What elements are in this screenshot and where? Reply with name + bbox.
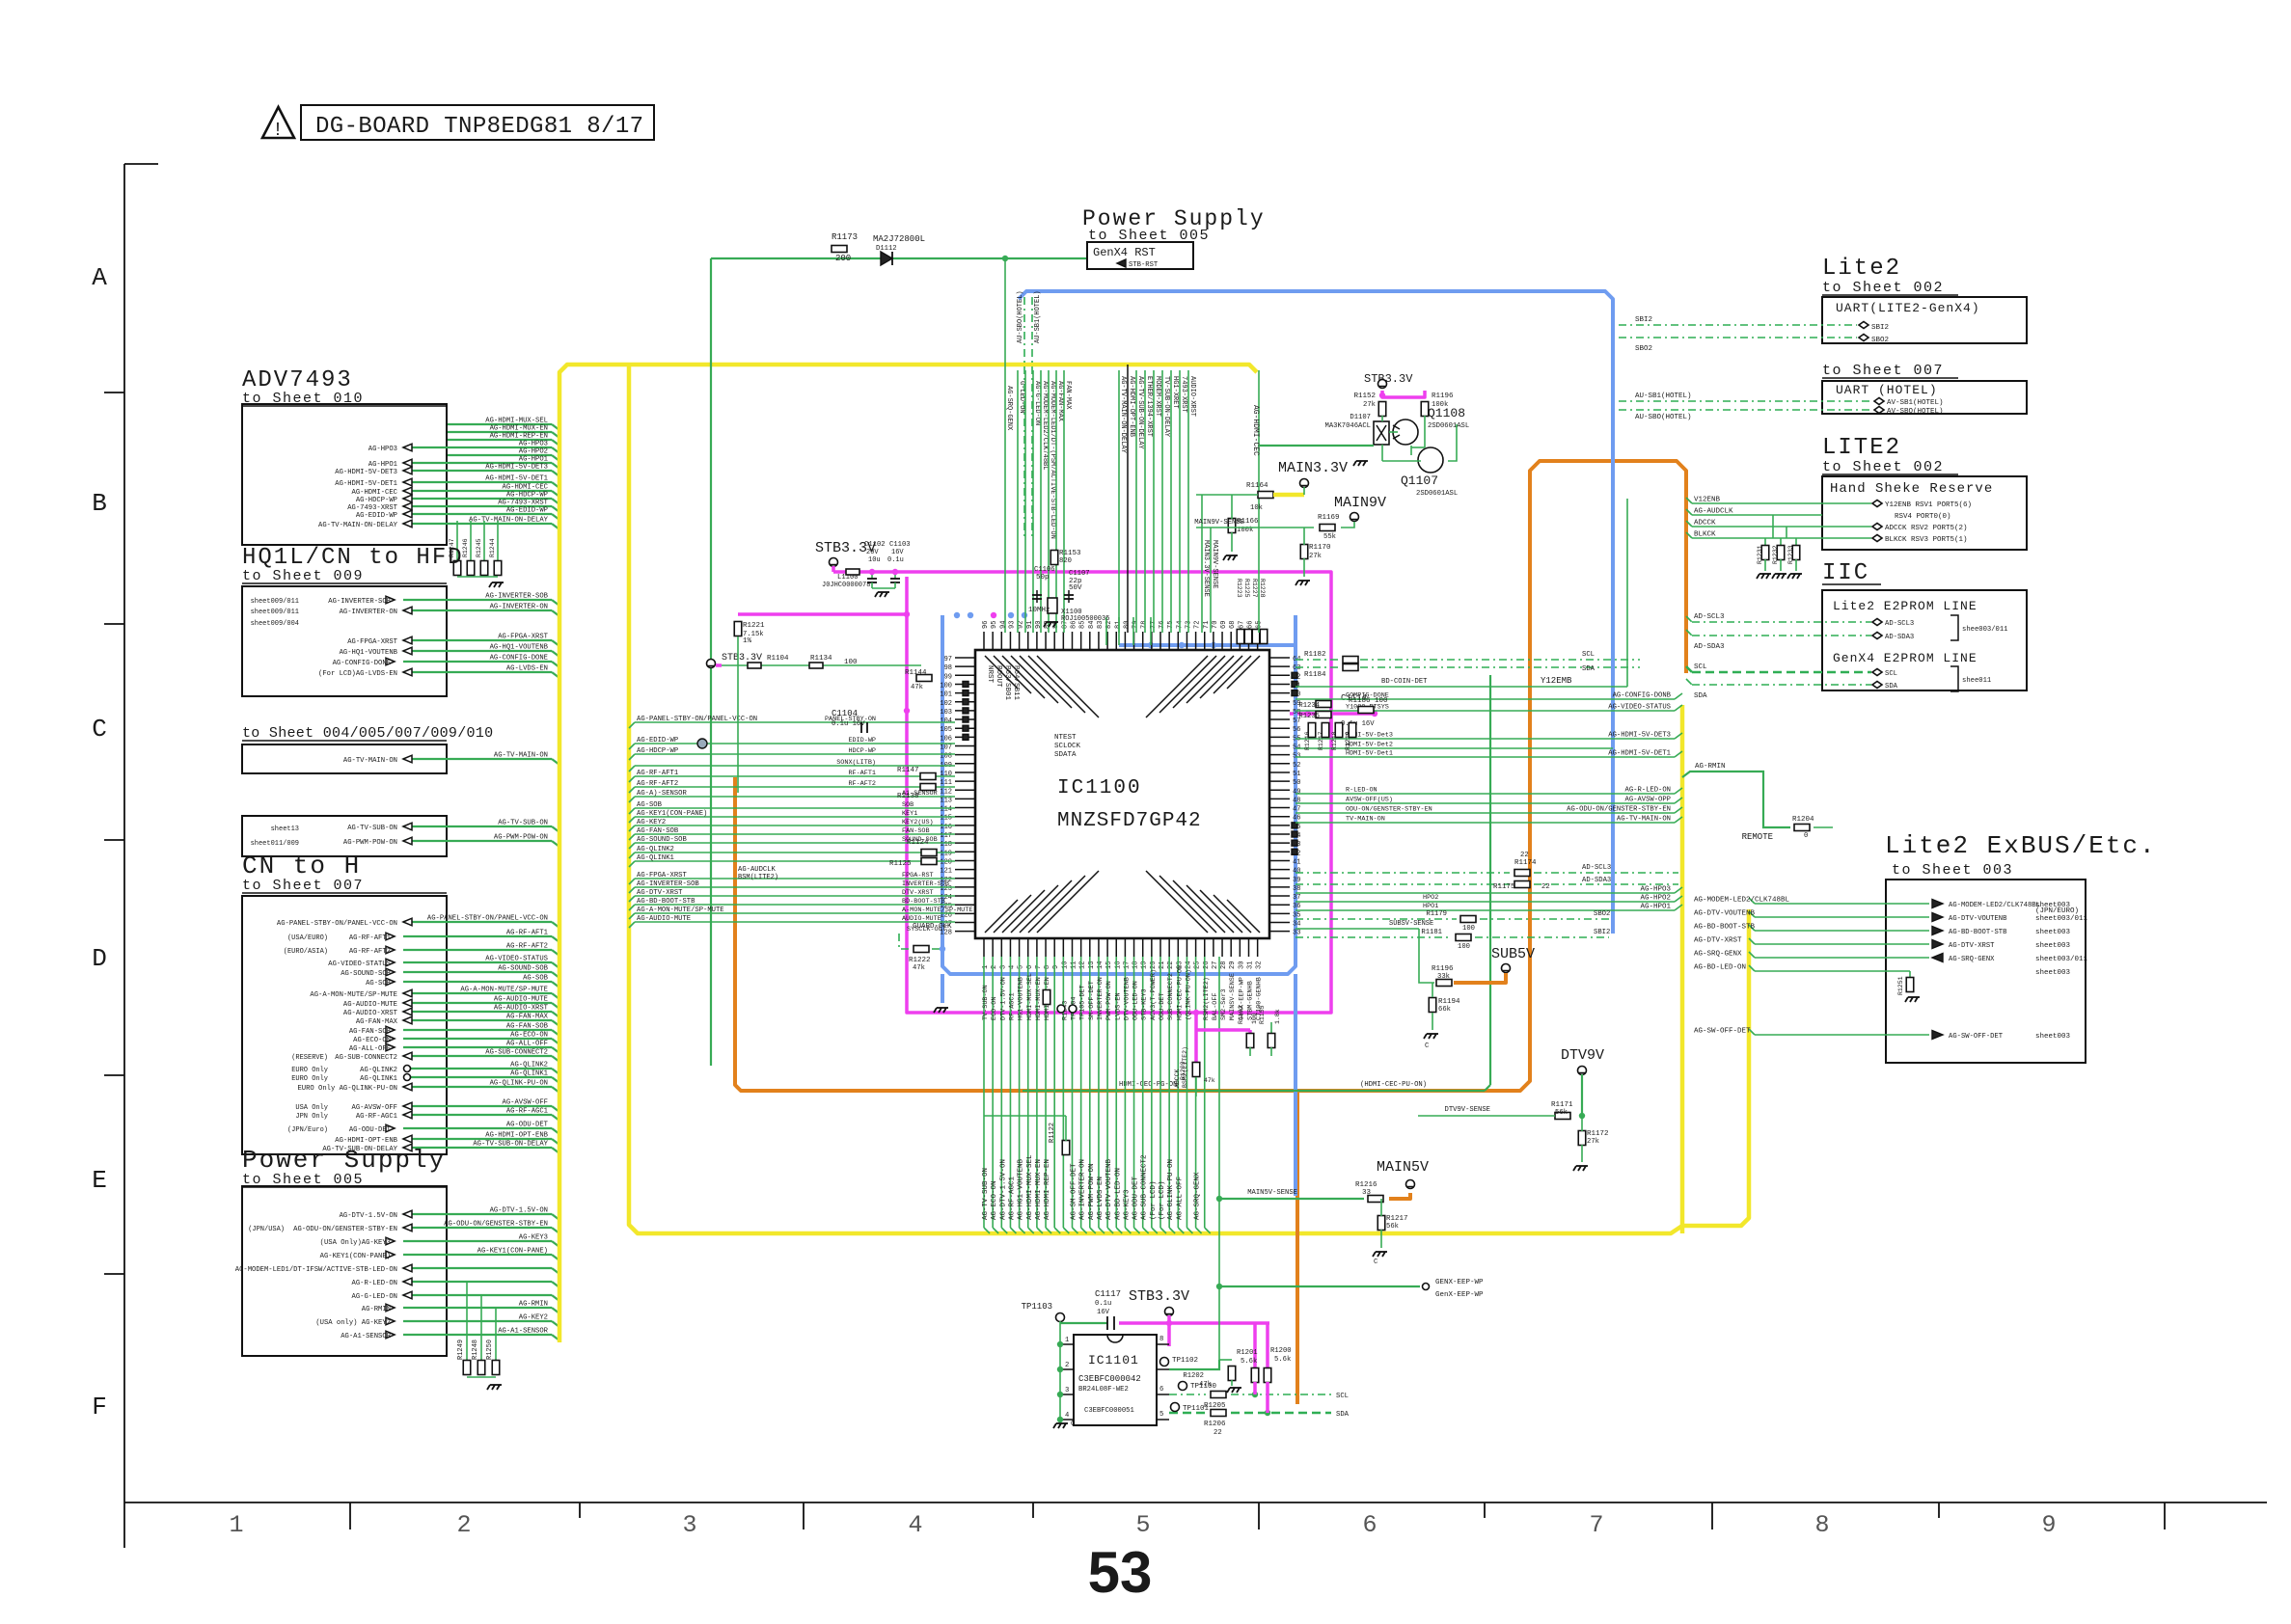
svg-text:TP105-DET: TP105-DET: [1079, 985, 1087, 1020]
svg-text:33k: 33k: [1437, 973, 1450, 981]
svg-text:AG-SUB-CONNECT2: AG-SUB-CONNECT2: [1141, 1154, 1149, 1220]
wire AG-SUB-CONNECT2: [403, 1055, 552, 1057]
svg-text:R1182: R1182: [1304, 651, 1326, 659]
svg-text:Q1107: Q1107: [1401, 474, 1438, 488]
wire AG-DTV-XRST: [1755, 943, 1929, 945]
svg-text:AG-BD-BOOT-STB: AG-BD-BOOT-STB: [637, 898, 695, 906]
wire AG-HDMI-MUX-SEL: [448, 423, 552, 425]
svg-text:to Sheet 007: to Sheet 007: [242, 878, 364, 894]
wire AG-FPGA-XRST: [635, 878, 955, 880]
svg-text:AD-SDA3: AD-SDA3: [1885, 634, 1914, 641]
svg-text:AG-AUDIO-XRST: AG-AUDIO-XRST: [343, 1010, 398, 1017]
svg-text:AG-HDMI-MUX-EN: AG-HDMI-MUX-EN: [1035, 1159, 1043, 1220]
svg-text:SUBSV-SENSE: SUBSV-SENSE: [1389, 920, 1433, 928]
svg-text:AG-RF-AFT1: AG-RF-AFT1: [506, 930, 548, 937]
svg-text:R1249: R1249: [457, 1340, 465, 1360]
svg-text:AG-VIDEO-STATUS: AG-VIDEO-STATUS: [485, 956, 548, 963]
svg-text:R1192: R1192: [1238, 1005, 1244, 1024]
svg-text:STB-RST: STB-RST: [1129, 261, 1159, 269]
svg-text:ODU-DET: ODU-DET: [1159, 992, 1166, 1020]
svg-text:AG-DTV-1.5V-ON: AG-DTV-1.5V-ON: [999, 1159, 1007, 1220]
wire AG-ODU-DET: [403, 1127, 552, 1129]
resistor R1138: [920, 784, 936, 791]
resistor R1196 33k to SUB5V: [1436, 980, 1452, 987]
svg-text:49: 49: [1293, 788, 1300, 796]
wire AG-KEY3: [403, 1240, 552, 1242]
svg-text:E: E: [92, 1166, 107, 1195]
svg-text:AUDIO-XRST: AUDIO-XRST: [1188, 376, 1196, 417]
box UART(LITE2-GenX4): [1822, 297, 2027, 343]
svg-text:Lite2 E2PROM LINE: Lite2 E2PROM LINE: [1833, 599, 1977, 613]
svg-text:AG-HDMI-REP-EN: AG-HDMI-REP-EN: [490, 433, 548, 441]
wire AG-TV-MAIN-ON: [403, 758, 552, 760]
svg-text:AG-A-MON-MUTE/SP-MUTE: AG-A-MON-MUTE/SP-MUTE: [310, 991, 397, 999]
wire AG-HQ1-VOUTENB: [403, 650, 552, 652]
svg-text:HDMI-CEC-PG-ON: HDMI-CEC-PG-ON: [1119, 1081, 1177, 1089]
svg-text:AG-RMIN: AG-RMIN: [519, 1301, 548, 1309]
wire AG-HDMI-REP-EN: [448, 439, 552, 441]
svg-text:AG-PANEL-STBY-ON/PANEL-VCC-ON: AG-PANEL-STBY-ON/PANEL-VCC-ON: [427, 915, 548, 923]
svg-text:AG-MODEM-LED2/CLK748BL: AG-MODEM-LED2/CLK748BL: [1949, 902, 2040, 909]
svg-text:AG-TV-MAIN-ON-DELAY: AG-TV-MAIN-ON-DELAY: [318, 522, 398, 529]
svg-text:AG-TV-SUB-ON: AG-TV-SUB-ON: [347, 825, 397, 832]
wire AG-QLINK1: [403, 1076, 552, 1078]
svg-text:1: 1: [229, 1511, 243, 1539]
svg-text:STB3.3V: STB3.3V: [1129, 1288, 1189, 1305]
svg-text:AG-RF-AGC1: AG-RF-AGC1: [356, 1113, 397, 1121]
svg-text:sheet13: sheet13: [271, 826, 299, 833]
svg-text:AG-HPO3: AG-HPO3: [1640, 886, 1671, 894]
wire AG-CONFIG-DONE: [403, 661, 552, 663]
svg-text:AG-AUDIO-XRST: AG-AUDIO-XRST: [494, 1005, 549, 1013]
svg-text:BSM(LITE2): BSM(LITE2): [738, 874, 778, 881]
svg-text:R-LED-ON: R-LED-ON: [1346, 787, 1377, 795]
svg-text:R1219: R1219: [1345, 731, 1351, 750]
svg-text:R1232: R1232: [1772, 545, 1779, 564]
svg-text:PWM-POW-ON: PWM-POW-ON: [1105, 981, 1113, 1020]
svg-text:AG-KEY3: AG-KEY3: [519, 1234, 548, 1242]
svg-text:AG-AUDIO-MUTE: AG-AUDIO-MUTE: [343, 1001, 397, 1009]
svg-text:R1216: R1216: [1304, 731, 1311, 750]
svg-text:STB3.3V: STB3.3V: [1364, 372, 1413, 386]
dash-dot verticals AU-SBO/AU-SB1 (HOTEL): [1023, 297, 1025, 540]
svg-text:C1104: C1104: [832, 709, 858, 718]
svg-text:35: 35: [1293, 911, 1300, 919]
svg-text:REMOTE: REMOTE: [1742, 832, 1773, 842]
svg-text:(USA only) AG-KEY2: (USA only) AG-KEY2: [315, 1319, 391, 1327]
svg-text:ETHER/1394-XRST: ETHER/1394-XRST: [1145, 376, 1153, 437]
svg-text:99: 99: [944, 673, 952, 681]
svg-text:AG-FAN-SOB: AG-FAN-SOB: [349, 1028, 392, 1036]
svg-text:AG-ALL-OFF: AG-ALL-OFF: [1176, 1177, 1184, 1220]
svg-text:41: 41: [1293, 858, 1300, 866]
svg-text:AG-R-LED-ON: AG-R-LED-ON: [1625, 787, 1671, 795]
svg-text:TP1103: TP1103: [1022, 1302, 1052, 1312]
box Hand Sheke Reserve: [1822, 476, 2027, 550]
svg-text:C1106: C1106: [1034, 566, 1055, 574]
svg-text:AG-DTV-XRST: AG-DTV-XRST: [1949, 942, 1995, 950]
resistor R1202 47k + ground: [1228, 1367, 1236, 1381]
svg-text:38: 38: [1293, 885, 1300, 893]
resistor R1186 100 with magenta: [1358, 707, 1374, 714]
svg-text:AG-TV-SUB-ON: AG-TV-SUB-ON: [498, 820, 548, 827]
border frame: left ruler line: [123, 164, 125, 1548]
svg-text:SM2-Ser3: SM2-Ser3: [1220, 988, 1228, 1020]
wire ADCCK: [1692, 526, 1871, 528]
svg-text:SBI2: SBI2: [1871, 324, 1889, 332]
svg-text:D1112: D1112: [876, 245, 897, 253]
svg-text:BD-BOOT-STB: BD-BOOT-STB: [902, 898, 945, 906]
svg-text:AG-SUB-CONNECT2: AG-SUB-CONNECT2: [335, 1054, 397, 1062]
wire AG-VIDEO-STATUS: [1296, 710, 1675, 712]
svg-text:8: 8: [1159, 1336, 1163, 1343]
wire black vertical in top bundle: [1127, 365, 1129, 633]
svg-text:INVERTER-SOB: INVERTER-SOB: [902, 880, 949, 888]
svg-text:AG-BD-BOOT-STB: AG-BD-BOOT-STB: [1694, 924, 1756, 932]
svg-text:P63/SB01: P63/SB01: [1003, 665, 1011, 701]
resistor R1124: [921, 850, 937, 856]
svg-text:USA Only: USA Only: [295, 1104, 328, 1112]
svg-text:AG-CONFIG-DONE: AG-CONFIG-DONE: [333, 660, 391, 667]
wire AG-R-LED-ON: [403, 1281, 552, 1283]
svg-text:AG-A)-SENSOR: AG-A)-SENSOR: [637, 790, 687, 798]
svg-text:5: 5: [1159, 1411, 1163, 1419]
svg-text:DG-BOARD TNP8EDG81 8/17: DG-BOARD TNP8EDG81 8/17: [315, 114, 643, 140]
wire DTV9V-SENSE: [1418, 1115, 1555, 1117]
box IIC E2PROM lines: [1822, 590, 2027, 690]
svg-text:AG-DTV-XRST: AG-DTV-XRST: [1694, 937, 1742, 945]
svg-text:(HDMI-CEC-PU-ON): (HDMI-CEC-PU-ON): [1360, 1081, 1427, 1089]
svg-text:107: 107: [940, 744, 952, 752]
svg-text:shee003/011: shee003/011: [1962, 626, 2007, 634]
wires transistor cluster: [1381, 416, 1383, 421]
wire HDMI-5V-Det2: [1296, 747, 1613, 749]
resistor R1173 200: [832, 246, 847, 253]
svg-text:52: 52: [1293, 762, 1300, 770]
svg-text:AG-TV-MAIN-ON: AG-TV-MAIN-ON: [494, 752, 548, 760]
svg-text:NRST: NRST: [986, 665, 994, 684]
svg-text:AG-MODEM-LED1/DT-IFSW/ACTIVE-S: AG-MODEM-LED1/DT-IFSW/ACTIVE-STB-LED-ON: [235, 1266, 397, 1274]
svg-text:AG-FAN-MAX: AG-FAN-MAX: [356, 1018, 398, 1026]
wire magenta STB3.3V feed to loop: [833, 570, 907, 574]
wire AG-AVSW-OPP: [1296, 802, 1675, 804]
svg-text:DTV-VOUTENB: DTV-VOUTENB: [1123, 977, 1131, 1020]
svg-text:Lite2 ExBUS/Etc.: Lite2 ExBUS/Etc.: [1885, 831, 2157, 860]
svg-text:AG-SRQ-GENX: AG-SRQ-GENX: [1694, 951, 1742, 959]
svg-text:SOB: SOB: [902, 801, 914, 809]
svg-text:97: 97: [944, 656, 952, 663]
svg-text:AG-QLINK2: AG-QLINK2: [360, 1067, 397, 1074]
svg-text:RF-AFT2: RF-AFT2: [848, 780, 876, 788]
wire AG-HPO rows: [1296, 892, 1675, 894]
svg-text:AG-SOUND-SOB: AG-SOUND-SOB: [637, 836, 687, 844]
svg-text:AG-AUDCLK: AG-AUDCLK: [1694, 508, 1733, 516]
wire AG-A1-SENSOR: [403, 1334, 552, 1336]
resistor pack R1244-R1247 below ADV box: [456, 521, 458, 562]
svg-text:AG-KEY2: AG-KEY2: [519, 1314, 548, 1322]
svg-text:AG-HDMI-MUX-SEL: AG-HDMI-MUX-SEL: [1026, 1154, 1034, 1220]
wire orange MAIN5V stub: [1389, 1193, 1410, 1199]
svg-text:AG-BD-BOOT-STB: AG-BD-BOOT-STB: [1949, 929, 2007, 936]
svg-text:AG-HDCP-WP: AG-HDCP-WP: [637, 747, 678, 755]
wire AG-HDMI-CEC: [403, 490, 552, 492]
svg-text:HDMI-MUX-EN: HDMI-MUX-EN: [1035, 977, 1043, 1020]
svg-text:BLKCK: BLKCK: [1694, 531, 1716, 539]
svg-text:106: 106: [940, 735, 952, 743]
svg-text:R1250: R1250: [486, 1340, 494, 1360]
svg-text:40: 40: [1293, 868, 1300, 876]
svg-text:AG-QLINK1: AG-QLINK1: [637, 854, 674, 862]
svg-text:R1172: R1172: [1587, 1130, 1609, 1138]
right small pin squares: [1292, 672, 1297, 678]
svg-text:AG-HDMI-OPT-ENB: AG-HDMI-OPT-ENB: [485, 1132, 548, 1140]
svg-text:to Sheet 007: to Sheet 007: [1822, 363, 1944, 379]
svg-text:R1231: R1231: [1757, 545, 1763, 564]
wire AG-DTV-1.5V-ON: [403, 1213, 552, 1215]
svg-text:AG-SRQ-GENX: AG-SRQ-GENX: [1949, 956, 1995, 963]
svg-text:115: 115: [940, 815, 952, 823]
svg-text:AG-VIDEO-STATUS: AG-VIDEO-STATUS: [328, 961, 391, 968]
wire AG-RF-AGC1: [403, 1114, 552, 1116]
wire AG-DTV-XRST: [635, 895, 955, 897]
svg-text:53: 53: [1088, 1540, 1153, 1605]
IC corner fan-out lines top-left: [985, 656, 1018, 689]
wire AG-INVERTER-SOB: [635, 886, 955, 888]
wire dashed AD-SCL3/AD-SDA3 mid rows: [1296, 872, 1510, 874]
svg-text:50V: 50V: [1069, 584, 1082, 592]
node AG-EDID-WP circle: [697, 739, 707, 748]
svg-text:112: 112: [940, 788, 952, 796]
svg-text:R1204: R1204: [1792, 816, 1814, 824]
resistor R1172 27k + ground: [1578, 1131, 1586, 1146]
wire AG-HDMI-5V-DET1: [403, 481, 552, 483]
svg-text:AG-HPO2: AG-HPO2: [1640, 895, 1671, 903]
svg-text:AG-ODU-ON/GENSTER-STBY-EN: AG-ODU-ON/GENSTER-STBY-EN: [444, 1221, 548, 1229]
svg-text:AG-AUDIO-MUTE: AG-AUDIO-MUTE: [494, 996, 548, 1004]
svg-text:100: 100: [1458, 943, 1470, 951]
svg-text:AU-SBO(HOTEL): AU-SBO(HOTEL): [1635, 414, 1692, 421]
svg-text:AG-KEY1(CON-PANE): AG-KEY1(CON-PANE): [320, 1253, 391, 1260]
svg-text:AG-HPO1: AG-HPO1: [519, 456, 548, 464]
resistor R1194 66k + ground: [1429, 998, 1436, 1013]
svg-text:GENX-EEP-WP: GENX-EEP-WP: [1435, 1279, 1484, 1286]
svg-text:D1107: D1107: [1350, 414, 1371, 421]
svg-text:MAIN5V: MAIN5V: [1377, 1159, 1429, 1176]
box Lite2 ExBUS: [1886, 880, 2086, 1063]
wire AG-R-LED-ON: [1296, 793, 1675, 795]
wire bus yellow outer: left vertical + top horizontal: [559, 365, 1257, 1342]
svg-text:AG-RMIN: AG-RMIN: [1695, 763, 1726, 771]
svg-text:AG-AVSW-OFF: AG-AVSW-OFF: [503, 1099, 548, 1107]
IC corner fan-out lines bottom-left: [985, 900, 1018, 933]
resistor R1166 100k + ground: [1228, 519, 1236, 533]
svg-text:R1217: R1217: [1386, 1215, 1408, 1223]
svg-text:50p: 50p: [1036, 574, 1050, 582]
svg-text:3: 3: [1065, 1387, 1069, 1394]
svg-text:AG-QLINK1: AG-QLINK1: [510, 1070, 548, 1078]
svg-text:MAIN9V-SENSE: MAIN9V-SENSE: [1211, 540, 1218, 588]
svg-text:R1227: R1227: [1251, 579, 1258, 598]
wire AG-QLINK2: [635, 852, 955, 853]
svg-text:AG-DTV-VOUTENB: AG-DTV-VOUTENB: [1949, 915, 2007, 923]
svg-text:(USA Only)AG-KEY3: (USA Only)AG-KEY3: [320, 1239, 391, 1247]
wire AG-HDMI-OPT-ENB: [403, 1138, 552, 1140]
svg-text:sheet003/011: sheet003/011: [2035, 956, 2088, 963]
svg-text:HG1-VOUTENB: HG1-VOUTENB: [1018, 977, 1025, 1020]
svg-text:SBO2: SBO2: [1635, 345, 1652, 353]
svg-text:(JPN/EURO): (JPN/EURO): [2035, 907, 2079, 915]
svg-text:9: 9: [2041, 1511, 2056, 1539]
svg-text:G-LED-ON: G-LED-ON: [1018, 381, 1025, 414]
svg-text:105: 105: [940, 726, 952, 734]
svg-text:AG-EDID-WP: AG-EDID-WP: [356, 512, 397, 520]
svg-text:R1175: R1175: [1493, 883, 1515, 891]
svg-text:AG-GLINK-PU-ON: AG-GLINK-PU-ON: [1167, 1159, 1175, 1220]
svg-text:SDATA: SDATA: [1054, 751, 1077, 759]
svg-text:KEY2(US): KEY2(US): [902, 819, 934, 826]
svg-text:AG-QLINK-PU-ON: AG-QLINK-PU-ON: [490, 1080, 548, 1088]
wire AG-HPO3: [403, 447, 552, 448]
svg-text:MAIN3.3V-SENSE: MAIN3.3V-SENSE: [1202, 540, 1210, 597]
svg-text:AG-A1-SENSOR: AG-A1-SENSOR: [498, 1328, 548, 1336]
svg-text:ADCCK: ADCCK: [1694, 520, 1716, 528]
svg-text:AG-TV-SUB-ON: AG-TV-SUB-ON: [982, 1168, 990, 1220]
svg-text:AG-INVERTER-ON: AG-INVERTER-ON: [340, 609, 397, 616]
svg-text:2SD0601ASL: 2SD0601ASL: [1416, 490, 1458, 498]
wire AG-FAN-SOB: [635, 833, 955, 835]
svg-text:R1164: R1164: [1246, 482, 1268, 490]
svg-text:IC1100: IC1100: [1057, 777, 1142, 799]
svg-text:SCL: SCL: [1885, 670, 1897, 678]
svg-text:sheet003: sheet003: [2035, 1033, 2071, 1041]
svg-text:AG-A-MON-MUTE/SP-MUTE: AG-A-MON-MUTE/SP-MUTE: [460, 987, 548, 994]
wire AG-PANEL-STBY-ON/PANEL-VCC-ON: [635, 721, 955, 723]
wire dashed SDA to IIC box: [1692, 684, 1871, 686]
svg-text:AG-PANEL-STBY-ON/PANEL-VCC-ON: AG-PANEL-STBY-ON/PANEL-VCC-ON: [637, 716, 757, 723]
svg-text:Lite2: Lite2: [1822, 256, 1901, 282]
svg-text:DTV-1.5V-ON: DTV-1.5V-ON: [999, 977, 1007, 1020]
svg-text:AG-AVSW-OPP: AG-AVSW-OPP: [1625, 797, 1671, 804]
wire AG-CONFIG-DONB: [1296, 698, 1675, 700]
svg-text:C: C: [92, 715, 107, 744]
svg-text:IIC: IIC: [1822, 560, 1869, 586]
svg-text:Hand Sheke Reserve: Hand Sheke Reserve: [1830, 481, 1993, 497]
wire dashed AV-SB1(HOTEL): [1619, 400, 1873, 402]
wire AG-TV-MAIN-ON-DELAY: [403, 523, 552, 525]
svg-text:GenX-EEP-WP: GenX-EEP-WP: [1435, 1291, 1484, 1299]
wire blue lower segment C1112: [1294, 974, 1297, 1196]
svg-text:to Sheet 004/005/007/009/010: to Sheet 004/005/007/009/010: [242, 725, 493, 742]
wire orange SUB5V stub (actual): [1454, 973, 1506, 983]
svg-text:R1181: R1181: [1421, 929, 1442, 936]
svg-text:sheet003: sheet003: [2035, 969, 2071, 977]
svg-text:27k: 27k: [1587, 1138, 1599, 1146]
svg-text:AG-EDID-WP: AG-EDID-WP: [637, 737, 678, 744]
wire AG-MODEM-LED1/DT-IFSW/ACTIVE-STB-LED-ON: [403, 1267, 552, 1269]
IC1101 pins right 8,7,6,5: [1157, 1343, 1169, 1345]
svg-text:0.1u: 0.1u: [1095, 1300, 1111, 1308]
svg-text:R1184: R1184: [1304, 671, 1326, 679]
op-amp U -- IC1101 EEPROM body: [1074, 1335, 1157, 1425]
svg-text:(For LCD): (For LCD): [1159, 1180, 1166, 1220]
svg-text:GUARD-CLK: GUARD-CLK: [913, 923, 952, 931]
wire AG-A)-SENSOR: [635, 796, 955, 798]
svg-text:AG-SUB-CONNECT2: AG-SUB-CONNECT2: [485, 1049, 548, 1057]
svg-text:AG-HPO2: AG-HPO2: [519, 448, 548, 456]
wire group: verticals right cluster to IC top pins: [1118, 370, 1120, 633]
wire AG-PWM-POW-ON: [403, 840, 552, 842]
svg-text:C1102: C1102: [864, 541, 886, 549]
svg-text:MAINSV-SENSE: MAINSV-SENSE: [1229, 973, 1237, 1020]
svg-text:AG-HDMI-5V-DET1: AG-HDMI-5V-DET1: [485, 475, 548, 483]
svg-text:AG-PWM-POW-ON: AG-PWM-POW-ON: [494, 834, 548, 842]
wire AG-BD-BOOT-STB: [1755, 930, 1929, 932]
wire AG-TV-SUB-ON: [403, 826, 552, 827]
svg-text:39: 39: [1293, 877, 1300, 884]
svg-text:AU-SBO(HOTEL): AU-SBO(HOTEL): [1017, 290, 1024, 343]
wire AG-HDCP-WP: [403, 498, 552, 500]
svg-text:AD-SCL3: AD-SCL3: [1885, 620, 1914, 628]
svg-text:C1107: C1107: [1069, 570, 1090, 578]
svg-text:AG-A1-SENSOR: AG-A1-SENSOR: [341, 1333, 391, 1340]
ground at blue loop corner: [934, 1008, 948, 1013]
svg-text:AD-SDA3: AD-SDA3: [1582, 877, 1611, 884]
svg-text:V12ENB: V12ENB: [1694, 497, 1721, 504]
svg-text:0.1u 16V: 0.1u 16V: [1341, 720, 1375, 728]
IC corner fan-out lines bottom-right: [1227, 900, 1260, 933]
wire dashed SBO2 into UART box: [1619, 337, 1857, 338]
svg-text:UART (HOTEL): UART (HOTEL): [1836, 383, 1938, 397]
svg-text:AG-TV-MAIN-ON-DELAY: AG-TV-MAIN-ON-DELAY: [1119, 376, 1127, 454]
svg-text:ADV7493: ADV7493: [242, 367, 353, 393]
svg-text:2SD0601ASL: 2SD0601ASL: [1428, 422, 1469, 430]
svg-text:AG-HDMI-5V-DET1: AG-HDMI-5V-DET1: [335, 480, 397, 488]
IC1100 bottom pins 1-32 with stubs: [983, 938, 985, 957]
svg-text:AG-PWM-POW-ON: AG-PWM-POW-ON: [1088, 1163, 1096, 1220]
svg-text:HDMI-5V-Det1: HDMI-5V-Det1: [1346, 750, 1393, 758]
svg-text:5.6k: 5.6k: [1241, 1358, 1257, 1366]
svg-text:GenX4 E2PROM LINE: GenX4 E2PROM LINE: [1833, 651, 1977, 665]
svg-text:111: 111: [940, 779, 952, 787]
svg-text:100: 100: [1251, 1013, 1258, 1024]
wire V12ENB: [1692, 502, 1871, 504]
svg-text:63: 63: [1293, 664, 1300, 672]
svg-text:AG-SRQ-GENX: AG-SRQ-GENX: [1194, 1172, 1202, 1220]
svg-text:AG-INVERTER-SOB: AG-INVERTER-SOB: [328, 598, 391, 606]
svg-text:51: 51: [1293, 771, 1300, 778]
svg-text:ROOUT: ROOUT: [995, 665, 1002, 688]
wire magenta right pins C1114 branch: [1290, 712, 1375, 716]
svg-text:SM-OFF-DET: SM-OFF-DET: [1088, 981, 1096, 1020]
svg-text:5: 5: [1135, 1511, 1150, 1539]
wire dashed SCL to IIC box: [1692, 671, 1871, 674]
svg-text:119: 119: [940, 850, 952, 857]
wire dashed SBI2 into UART box: [1619, 324, 1857, 326]
wire green vertical from bundle to IC1101 pin 7 area: [1218, 1233, 1220, 1360]
svg-text:P64/SB11: P64/SB11: [1012, 665, 1020, 701]
resistor R1170 27k + ground: [1300, 545, 1308, 559]
warning triangle symbol: [262, 107, 294, 138]
svg-text:AG-KEY1(CON-PANE): AG-KEY1(CON-PANE): [637, 810, 707, 818]
svg-text:R1170: R1170: [1309, 544, 1331, 552]
svg-text:AG-INVERTER-SOB: AG-INVERTER-SOB: [637, 880, 699, 888]
wire AG-AUDCLK: [1692, 514, 1822, 516]
svg-text:SBO2: SBO2: [1871, 337, 1889, 344]
svg-text:R1194: R1194: [1438, 998, 1460, 1006]
resistor R1147: [920, 773, 936, 780]
svg-text:SBO2: SBO2: [1594, 910, 1610, 918]
svg-text:AG-FPGA-XRST: AG-FPGA-XRST: [637, 872, 687, 880]
